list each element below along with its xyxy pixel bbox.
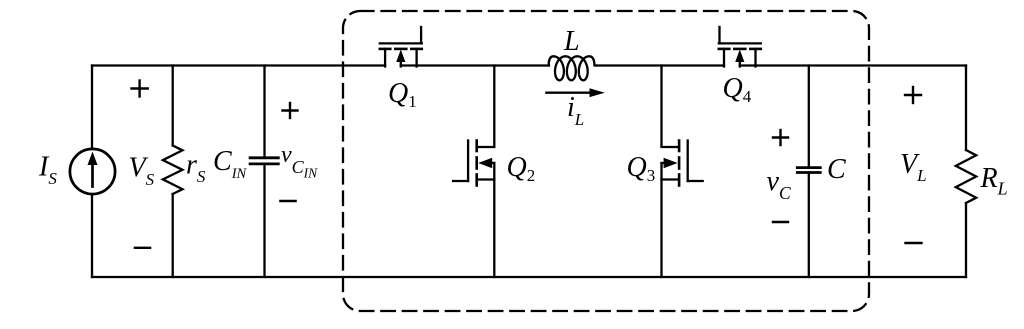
- wire left branch upper: [91, 66, 93, 150]
- wire top bus input segment: [92, 64, 385, 66]
- dashed converter box: [343, 11, 869, 311]
- minus v_C: [773, 221, 788, 223]
- inductor L: [549, 56, 596, 80]
- wire right branch upper: [965, 66, 967, 151]
- wire Q3 branch upper: [660, 66, 662, 147]
- current source I_S: [70, 149, 115, 194]
- wire bottom bus: [92, 276, 966, 278]
- minus V_S: [135, 247, 150, 249]
- svg-text:C: C: [827, 154, 846, 185]
- wire left branch lower: [91, 195, 93, 278]
- svg-text:RL: RL: [980, 163, 1008, 199]
- wire Q2 branch lower: [493, 180, 495, 277]
- plus v_C: [773, 130, 788, 145]
- svg-text:VL: VL: [900, 149, 927, 185]
- capacitor C_IN: [250, 158, 278, 164]
- transistor Q1: [380, 27, 422, 67]
- wire right branch lower: [965, 203, 967, 277]
- svg-text:Q2: Q2: [507, 152, 536, 185]
- svg-text:rS: rS: [186, 150, 206, 187]
- capacitor C: [797, 168, 820, 173]
- svg-text:VS: VS: [129, 153, 155, 190]
- svg-text:IS: IS: [38, 152, 57, 189]
- transistor Q3: [662, 141, 703, 186]
- svg-text:Q3: Q3: [627, 152, 656, 185]
- svg-text:Q1: Q1: [388, 78, 417, 111]
- resistor r_S: [163, 146, 183, 195]
- wire C branch lower: [808, 174, 810, 277]
- transistor Q2: [453, 141, 494, 186]
- plus v_CIN: [283, 103, 298, 118]
- plus V_L: [905, 87, 921, 103]
- svg-text:iL: iL: [567, 92, 584, 129]
- wire Q3 branch lower: [660, 180, 662, 277]
- wire node B segment: [596, 64, 724, 66]
- wire resistor branch lower: [172, 194, 174, 277]
- wire resistor branch upper: [172, 66, 174, 146]
- wire C branch upper: [808, 66, 810, 167]
- wire C_IN branch lower: [263, 165, 265, 277]
- wire output segment: [740, 64, 966, 66]
- wire C_IN branch upper: [263, 66, 265, 157]
- plus V_S: [132, 81, 148, 97]
- arrow i_L: [546, 88, 604, 97]
- resistor R_L: [956, 150, 976, 203]
- transistor Q4: [719, 27, 761, 67]
- svg-text:Q4: Q4: [723, 73, 752, 106]
- svg-text:L: L: [563, 26, 580, 57]
- wire Q2 branch upper: [493, 66, 495, 147]
- svg-text:vCIN: vCIN: [281, 142, 318, 181]
- minus V_L: [906, 242, 922, 244]
- svg-text:vC: vC: [767, 166, 791, 203]
- wire node A segment: [401, 64, 549, 66]
- svg-text:CIN: CIN: [213, 146, 248, 182]
- minus v_CIN: [280, 200, 295, 202]
